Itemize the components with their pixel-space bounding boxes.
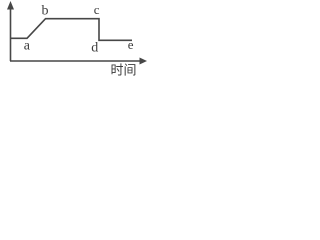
x-axis arrowhead — [140, 58, 148, 65]
svg-text:a: a — [24, 39, 31, 54]
curve a-b-c-d-e — [10, 19, 132, 41]
x-axis — [10, 60, 141, 62]
svg-text:b: b — [42, 4, 49, 19]
y-axis arrowhead — [7, 1, 14, 10]
svg-text:d: d — [91, 41, 98, 56]
svg-text:c: c — [94, 2, 100, 17]
svg-text:e: e — [128, 37, 134, 52]
y-axis — [10, 7, 12, 61]
svg-text:时间: 时间 — [110, 63, 136, 78]
